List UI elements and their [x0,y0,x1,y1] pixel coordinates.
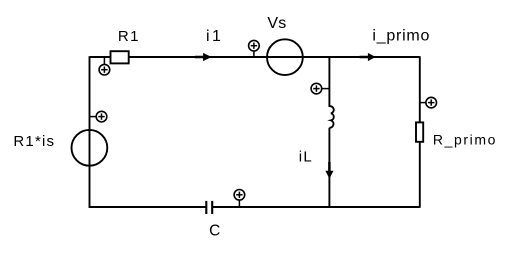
capacitor C [206,201,220,240]
polarity marker near inductor [311,83,329,94]
wire middle branch lower [328,128,330,208]
svg-text:i_primo: i_primo [372,28,430,45]
wire bottom-right (from capacitor) [213,206,420,208]
wire left [89,56,91,208]
svg-text:i1: i1 [206,28,223,45]
wire middle branch upper [328,56,330,107]
polarity marker near R1 [99,57,110,75]
svg-text:C: C [209,222,220,239]
polarity marker near capacitor [234,190,245,208]
wire right [419,56,421,208]
polarity marker near Vs [249,40,260,57]
current arrow i1 [195,28,223,61]
svg-text:R_primo: R_primo [433,131,497,147]
polarity marker near R_primo [420,97,437,108]
current arrow i_primo [360,28,431,61]
source Vs [267,15,303,75]
resistor R1 [111,28,140,63]
polarity marker near R1*is source [90,111,107,122]
wire top [90,56,420,58]
svg-text:R1*is: R1*is [13,133,55,150]
resistor R_primo [416,122,497,147]
current arrow iL [299,149,334,179]
source R1*is [13,130,107,166]
svg-text:R1: R1 [118,28,140,45]
svg-text:Vs: Vs [267,15,286,32]
inductor coil [329,106,333,127]
wire bottom-left (to capacitor) [89,206,206,208]
svg-text:iL: iL [299,149,313,166]
